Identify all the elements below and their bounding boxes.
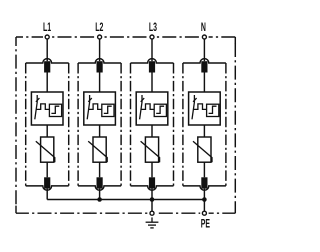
module 3 base socket top (line with plug arc) (131, 59, 174, 63)
terminal N (input terminal circle) (202, 35, 206, 39)
wire L2 terminal to module 2 top contact (99, 39, 101, 61)
ground symbol (146, 217, 159, 228)
spark gap U1 trigger pulse trace (36, 104, 49, 110)
wire varistor R2 to module 2 bottom pin (99, 162, 101, 177)
module 3 bottom contact pin (filled) (149, 177, 155, 188)
svg-text:N: N (201, 21, 206, 34)
wire module 3 pin to spark gap (151, 73, 153, 93)
PE bus wire (47, 199, 204, 201)
varistor R2 diagonal (88, 141, 107, 162)
module 3 top contact pin (filled) (149, 61, 155, 72)
module 1 top contact pin (filled) (44, 61, 50, 72)
svg-text:L2: L2 (95, 21, 104, 34)
wire varistor R1 to module 1 bottom pin (46, 162, 48, 177)
PE terminal circle (202, 211, 206, 215)
wire spark gap U3 to varistor R3 (151, 125, 153, 137)
terminal L3 (input terminal circle) (150, 35, 154, 39)
wire module 1 to PE bus (46, 189, 48, 200)
spark gap U2 trigger box (102, 104, 114, 116)
spark gap U3 trigger box (154, 104, 166, 116)
spark gap U2 trigger pulse trace (89, 104, 102, 110)
module 1 left edge (dash-dot) (25, 63, 27, 186)
spark gap U1 trigger box (49, 104, 61, 116)
module 3 left edge (dash-dot) (130, 63, 132, 186)
enclosure right border (dash-dot) (234, 37, 236, 213)
spark gap U2 trigger step symbol (104, 106, 112, 113)
spark gap U4 electrode line (192, 95, 194, 119)
wire module 3 to PE bus and earth terminal (151, 189, 153, 211)
spark gap U2 electrode tick (88, 98, 92, 102)
spark gap U2 outer box (84, 92, 116, 125)
varistor R4 diagonal (193, 141, 212, 162)
spark gap U1 outer box (31, 92, 63, 125)
spark gap U3 trigger step symbol (156, 106, 164, 113)
enclosure top border (dash-dot) (16, 36, 235, 38)
module 2 left edge (dash-dot) (77, 63, 79, 186)
module 1 right edge (dash-dot) (68, 63, 70, 186)
module 2 base socket bottom (line with plug arc) (78, 186, 121, 190)
wire L3 terminal to module 3 top contact (151, 39, 153, 61)
enclosure left border (dash-dot) (15, 37, 17, 213)
svg-text:PE: PE (201, 218, 211, 231)
spark gap U3 electrode tick (141, 98, 145, 102)
module 4 right edge (dash-dot) (225, 63, 227, 186)
wire spark gap U4 to varistor R4 (203, 125, 205, 137)
wire module 2 pin to spark gap (99, 73, 101, 93)
wire module 4 pin to spark gap (203, 73, 205, 93)
module 4 top contact pin (filled) (201, 61, 207, 72)
spark gap U4 trigger pulse trace (193, 104, 206, 110)
terminal L2 (input terminal circle) (98, 35, 102, 39)
module 4 left edge (dash-dot) (182, 63, 184, 186)
module 1 base socket top (line with plug arc) (26, 59, 69, 63)
module 4 base socket top (line with plug arc) (183, 59, 226, 63)
wire L1 terminal to module 1 top contact (46, 39, 48, 61)
module 2 top contact pin (filled) (97, 61, 103, 72)
wire varistor R3 to module 3 bottom pin (151, 162, 153, 177)
spark gap U4 trigger step symbol (209, 106, 217, 113)
svg-text:L3: L3 (149, 21, 158, 34)
wire spark gap U1 to varistor R1 (46, 125, 48, 137)
wire module 2 to PE bus (99, 189, 101, 200)
spark gap U1 electrode tick (36, 98, 40, 102)
spark gap U4 outer box (189, 92, 221, 125)
varistor R1 diagonal (36, 141, 55, 162)
spark gap U4 trigger box (207, 104, 219, 116)
varistor R1 body (41, 137, 54, 162)
spark gap U3 trigger pulse trace (141, 104, 154, 110)
junction N on PE bus (202, 197, 207, 202)
varistor R4 body (198, 137, 211, 162)
varistor R3 diagonal (141, 141, 160, 162)
junction L3 on PE bus (150, 197, 155, 202)
earth terminal circle (150, 211, 154, 215)
spark gap U3 electrode line (140, 95, 142, 119)
wire spark gap U2 to varistor R2 (99, 125, 101, 137)
module 2 bottom contact pin (filled) (97, 177, 103, 188)
module 3 right edge (dash-dot) (173, 63, 175, 186)
spark gap U4 electrode tick (193, 98, 197, 102)
wire N terminal to module 4 top contact (203, 39, 205, 61)
wire varistor R4 to module 4 bottom pin (203, 162, 205, 177)
spark gap U3 outer box (136, 92, 168, 125)
wire module 4 to PE bus and PE terminal (203, 189, 205, 211)
varistor R2 body (93, 137, 106, 162)
svg-text:L1: L1 (43, 21, 52, 34)
module 2 base socket top (line with plug arc) (78, 59, 121, 63)
module 1 base socket bottom (line with plug arc) (26, 186, 69, 190)
module 1 bottom contact pin (filled) (44, 177, 50, 188)
enclosure bottom border (dash-dot) (16, 212, 235, 214)
spark gap U1 trigger step symbol (51, 106, 59, 113)
module 3 base socket bottom (line with plug arc) (131, 186, 174, 190)
varistor R3 body (145, 137, 158, 162)
module 4 bottom contact pin (filled) (201, 177, 207, 188)
spark gap U1 electrode line (35, 95, 37, 119)
spark gap U2 electrode line (87, 95, 89, 119)
terminal L1 (input terminal circle) (45, 35, 49, 39)
module 2 right edge (dash-dot) (120, 63, 122, 186)
junction L2 on PE bus (97, 197, 102, 202)
wire module 1 pin to spark gap (46, 73, 48, 93)
module 4 base socket bottom (line with plug arc) (183, 186, 226, 190)
